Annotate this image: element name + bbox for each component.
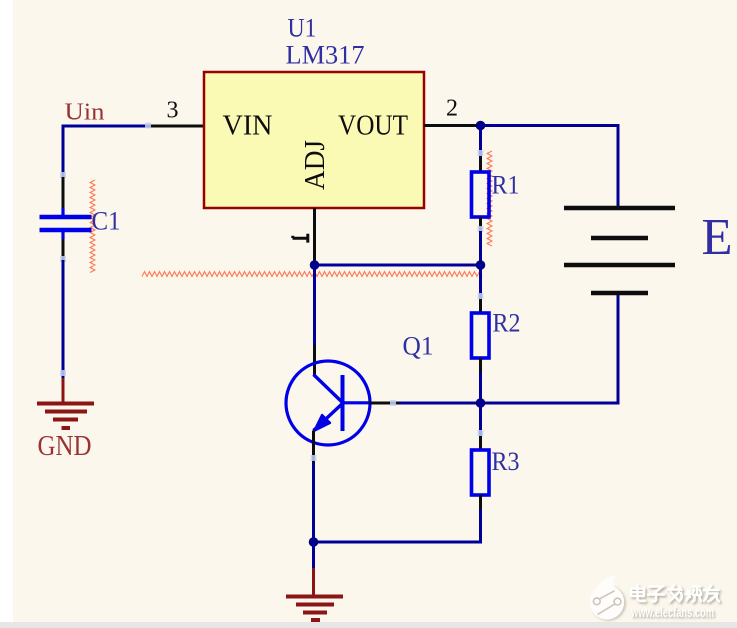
transistor Q1 <box>286 361 370 445</box>
resistor R1 bottom pin <box>479 217 482 231</box>
resistor R1 <box>472 172 490 217</box>
squiggle marker near R1 <box>487 151 492 246</box>
transistor Q1 emitter pin <box>312 431 315 463</box>
svg-text:GND: GND <box>38 431 92 462</box>
bottom page strip <box>0 622 737 628</box>
svg-text:Q1: Q1 <box>403 332 434 361</box>
pin 1 (ADJ) of U1 <box>313 208 316 266</box>
watermark text 电子发烧友 <box>633 587 721 603</box>
resistor R3 bottom pin <box>479 495 482 509</box>
wire R1 to bus <box>479 231 482 265</box>
resistor R2 bottom pin <box>479 358 482 372</box>
svg-text:U1: U1 <box>288 14 317 43</box>
pin marker GND stem <box>60 370 66 376</box>
pin marker R1 top <box>478 150 484 156</box>
resistor R3 <box>472 450 490 495</box>
wire ADJ bus <box>315 264 481 267</box>
resistor R1 top pin <box>479 157 482 172</box>
svg-text:3: 3 <box>167 98 179 124</box>
node R1 bottom junction <box>476 260 486 270</box>
node ADJ junction <box>310 260 320 270</box>
svg-text:R1: R1 <box>492 171 520 200</box>
wire emitter to ground node <box>312 462 315 542</box>
wire C1 to ground <box>62 260 65 378</box>
ground power symbol bottom <box>286 568 343 620</box>
wire Uin horizontal <box>63 125 150 128</box>
pin number 1 <box>293 234 309 243</box>
wire ADJ to Q1 collector <box>313 265 316 345</box>
node VOUT junction <box>476 121 486 131</box>
svg-text:VOUT: VOUT <box>338 111 408 142</box>
wire Uin vertical <box>62 125 65 178</box>
capacitor C1 <box>40 208 92 239</box>
resistor R3 top pin <box>479 436 482 450</box>
pin 3 of U1 <box>150 125 204 128</box>
wire base to node <box>399 402 481 405</box>
svg-text:C1: C1 <box>92 207 121 236</box>
svg-text:www.elecfans.com: www.elecfans.com <box>630 605 714 620</box>
wire VOUT to battery plus <box>481 126 619 208</box>
pin marker R3 top <box>478 430 484 436</box>
wire ground node down <box>312 542 315 568</box>
svg-text:LM317: LM317 <box>286 41 365 70</box>
svg-text:ADJ: ADJ <box>300 140 331 190</box>
battery E <box>564 208 675 293</box>
pin marker R1 bottom <box>478 226 484 232</box>
svg-text:E: E <box>702 209 733 266</box>
ground GND symbol <box>37 378 94 428</box>
squiggle marker near C1 <box>90 180 95 273</box>
resistor R2 top pin <box>479 299 482 313</box>
squiggle marker under ADJ bus <box>142 272 482 277</box>
pin marker emitter <box>311 455 317 461</box>
node base junction <box>476 398 486 408</box>
op-amp U1 body <box>204 72 424 208</box>
transistor Q1 collector pin <box>313 345 316 375</box>
watermark logo <box>590 576 626 621</box>
wire R3 to ground node <box>314 509 481 542</box>
svg-text:Uin: Uin <box>65 100 105 126</box>
pin marker R2 top <box>478 293 484 299</box>
svg-text:R3: R3 <box>492 447 520 476</box>
node emitter ground junction <box>309 537 319 547</box>
wire base node to battery minus <box>481 295 619 403</box>
wire bus to R2 <box>479 265 482 299</box>
capacitor C1 top pin <box>62 177 65 209</box>
resistor R2 <box>472 313 490 358</box>
svg-text:R2: R2 <box>493 309 521 338</box>
wire R2 to base node <box>479 372 482 403</box>
pin 2 of U1 <box>424 124 478 127</box>
capacitor C1 bottom pin <box>62 239 65 260</box>
transistor Q1 base pin <box>369 402 399 405</box>
pin marker pin3 <box>145 123 151 129</box>
wire base node to R3 <box>479 403 482 436</box>
svg-text:VIN: VIN <box>223 111 273 142</box>
pin marker C1 bottom <box>60 256 66 262</box>
wire junction to R1 <box>479 126 482 158</box>
pin marker C1 top <box>60 172 66 178</box>
pin marker base <box>390 400 396 406</box>
svg-text:2: 2 <box>446 96 458 122</box>
watermark text www.elecfans.com <box>630 605 715 621</box>
